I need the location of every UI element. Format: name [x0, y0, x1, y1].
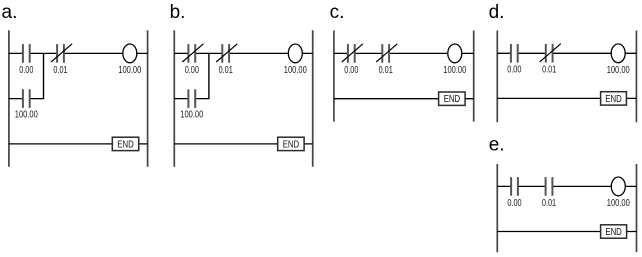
left power rail (e.): [496, 164, 498, 252]
svg-text:0.00: 0.00: [507, 198, 522, 209]
END instruction box (b.): [278, 137, 304, 150]
contact 0.00 (NC) c.: [342, 44, 363, 76]
END instruction box (d.): [601, 92, 627, 105]
svg-text:0.00: 0.00: [507, 65, 522, 76]
END instruction box (c.): [439, 92, 466, 105]
svg-text:100.00: 100.00: [118, 65, 141, 76]
wire END rung (d.): [497, 97, 636, 99]
svg-text:0.00: 0.00: [344, 65, 359, 76]
wire rung 1 (d.): [497, 52, 636, 54]
wire rung 1 (e.): [497, 185, 636, 187]
output coil 100.00 a.: [118, 44, 141, 76]
contact 0.00 (NO) d.: [507, 44, 522, 76]
left power rail (b.): [173, 30, 175, 167]
left power rail (d.): [496, 31, 498, 123]
output coil 100.00 b.: [284, 44, 307, 76]
right power rail (a.): [147, 30, 149, 167]
wire rung 1 (c.): [334, 52, 474, 54]
svg-text:100.00: 100.00: [607, 198, 630, 209]
END instruction box (e.): [601, 225, 627, 238]
output coil 100.00 d.: [607, 44, 630, 76]
svg-text:0.01: 0.01: [219, 65, 233, 76]
contact 0.00 (NO) e.: [507, 177, 522, 209]
svg-text:0.01: 0.01: [53, 65, 67, 76]
wire rung 1 (a.): [9, 52, 148, 54]
svg-text:END: END: [605, 227, 621, 238]
svg-text:a.: a.: [2, 2, 18, 23]
wire parallel branch (a.): [9, 53, 44, 99]
contact 0.01 (NC) b.: [216, 44, 237, 76]
svg-text:100.00: 100.00: [443, 65, 466, 76]
right power rail (c.): [473, 31, 475, 122]
svg-text:END: END: [117, 139, 133, 150]
wire END rung (a.): [9, 143, 148, 145]
contact 0.00 (NO) a.: [19, 44, 34, 76]
contact 0.01 (NC) a.: [51, 44, 72, 76]
svg-text:END: END: [283, 139, 299, 150]
svg-text:d.: d.: [489, 2, 505, 23]
svg-text:0.00: 0.00: [185, 65, 200, 76]
svg-text:0.01: 0.01: [379, 65, 393, 76]
wire END rung (e.): [497, 231, 636, 233]
svg-text:0.01: 0.01: [542, 65, 556, 76]
wire rung 1 (b.): [174, 52, 312, 54]
left power rail (c.): [333, 31, 335, 122]
svg-text:0.00: 0.00: [19, 65, 34, 76]
svg-text:b.: b.: [170, 2, 186, 23]
output coil 100.00 c.: [443, 44, 466, 76]
right power rail (e.): [636, 164, 638, 252]
wire parallel branch (b.): [174, 53, 209, 99]
contact 0.01 (NC) d.: [540, 44, 561, 76]
left power rail (a.): [8, 30, 10, 167]
output coil 100.00 e.: [607, 177, 630, 209]
svg-text:100.00: 100.00: [284, 65, 307, 76]
branch contact 100.00 (NO) b.: [180, 89, 203, 120]
branch contact 100.00 (NO) a.: [15, 89, 38, 120]
svg-text:100.00: 100.00: [607, 65, 630, 76]
END instruction box (a.): [112, 137, 138, 150]
contact 0.00 (NC) b.: [182, 44, 203, 76]
svg-text:0.01: 0.01: [542, 198, 556, 209]
contact 0.01 (NO) e.: [542, 177, 556, 209]
svg-text:100.00: 100.00: [180, 110, 203, 121]
svg-text:END: END: [444, 94, 460, 105]
svg-text:100.00: 100.00: [15, 110, 38, 121]
svg-text:END: END: [605, 94, 621, 105]
wire END rung (b.): [174, 143, 312, 145]
right power rail (b.): [312, 30, 314, 167]
wire END rung (c.): [334, 98, 474, 100]
right power rail (d.): [635, 31, 637, 123]
svg-text:e.: e.: [489, 134, 505, 155]
contact 0.01 (NC) c.: [376, 44, 397, 76]
svg-text:c.: c.: [330, 2, 345, 23]
